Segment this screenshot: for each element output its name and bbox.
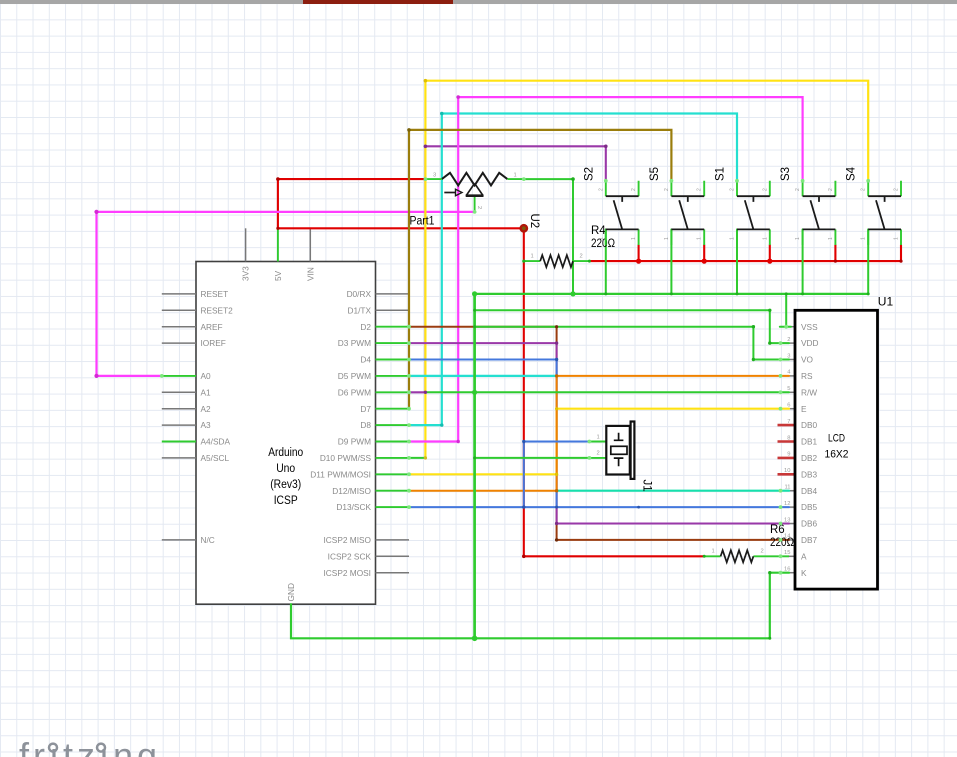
svg-text:1: 1 [795,237,801,240]
Arduino pin stub D8 [376,424,410,426]
svg-text:16: 16 [784,567,790,573]
green dot VSS vertical top [785,292,788,295]
dark-yellow corner top-left [407,128,411,132]
pushbutton S5 top pin stubs (green) [671,181,704,196]
green trunk junction R/W row [472,390,477,395]
svg-text:2: 2 [598,188,604,191]
svg-text:RESET2: RESET2 [201,305,234,315]
potentiometer Part1 zigzag body [442,173,508,186]
LCD pin stub DB5 [780,506,795,508]
wire D11 to LCD E (yellow) [409,409,789,475]
Arduino pin stub D10 PWM/SS [376,457,410,459]
yellow corner top-left [424,79,428,83]
wire piezo pin1 to D13 column (blue) [524,442,590,508]
svg-text:3: 3 [433,172,436,178]
svg-text:IOREF: IOREF [201,338,226,348]
red bus junction S3 [834,260,837,263]
yellow dot D10 row [424,456,427,459]
svg-text:DB1: DB1 [801,437,818,447]
svg-text:D0/RX: D0/RX [347,289,372,299]
pushbutton S3 top pin stubs (green) [803,181,836,196]
svg-text:2: 2 [795,188,801,191]
wire D3 to LCD DB6 (purple) [409,343,789,523]
node U2 (red junction) [519,224,528,233]
Arduino pin stub D3 PWM [376,342,410,344]
svg-text:D10 PWM/SS: D10 PWM/SS [320,453,372,463]
piezo buzzer J1 right bar [631,422,635,479]
svg-text:D3 PWM: D3 PWM [338,338,371,348]
svg-text:D9 PWM: D9 PWM [338,437,371,447]
svg-text:DB2: DB2 [801,453,818,463]
Arduino pin stub D12/MISO [376,490,410,492]
cyan corner top-left [440,112,444,116]
svg-text:DB3: DB3 [801,469,818,479]
Arduino pin stub RESET2 [162,309,196,311]
wire S1 left pin to ground bus (green) [736,229,738,294]
purple corner at S2 [604,145,608,149]
Arduino pin stub AREF [162,326,196,328]
svg-text:DB6: DB6 [801,519,818,529]
svg-text:Part1: Part1 [410,216,435,228]
wire D5 to column (cyan) [409,375,557,377]
red corner pot pin3 [276,177,280,181]
svg-text:D1/TX: D1/TX [347,305,371,315]
red corner A row [522,555,526,559]
Arduino pin stub ICSP2 MOSI [376,572,410,574]
svg-text:1: 1 [730,237,736,240]
LCD pin stub VO [780,359,795,361]
svg-text:A1: A1 [201,387,212,397]
ground bus junction pot1 [570,291,575,296]
svg-text:D8: D8 [360,420,371,430]
green corner VDD [768,309,771,312]
Arduino pin stub A2 [162,408,196,410]
yellow tee column E [555,407,558,410]
Arduino pin stub 5V [277,228,279,261]
LCD ratsnest stub DB2 [778,457,795,460]
LCD ratsnest stub DB1 [778,440,795,443]
svg-text:7: 7 [787,419,790,425]
Arduino pin stub D7 [376,408,410,410]
magenta dot D9 row [457,440,460,443]
Arduino pin stub D5 PWM [376,375,410,377]
svg-text:1: 1 [861,237,867,240]
svg-text:3: 3 [787,353,790,359]
wire D13 to LCD DB5 (blue) [409,506,789,508]
LCD pin stub VDD [780,342,795,344]
resistor R4 zigzag [540,255,573,267]
svg-text:DB0: DB0 [801,420,818,430]
svg-text:2: 2 [730,188,736,191]
svg-text:U2: U2 [528,214,540,229]
svg-text:R6: R6 [770,524,785,536]
wire GND to bottom bus to LCD K (green) [291,573,789,639]
Arduino pin stub ICSP2 SCK [376,555,410,557]
wire D2 to LCD DB7 (maroon) [409,327,789,540]
svg-text:D4: D4 [360,355,371,365]
purple corner top-left [424,145,428,149]
svg-text:15: 15 [784,550,790,556]
svg-text:1: 1 [664,237,670,240]
LCD pin stub RS [780,375,795,377]
wire bus to LCD VO (green) [475,327,789,360]
svg-text:1: 1 [597,434,600,440]
wire bus to LCD VDD (green) [475,310,789,343]
green corner K bottom [768,637,771,640]
wire S2 right pin to red bus [638,245,640,261]
svg-text:VIN: VIN [305,267,315,281]
LCD ratsnest stub DB3 [778,473,795,476]
pushbutton S5 body [671,196,704,229]
green bus dot S1 [736,292,739,295]
svg-text:1: 1 [598,237,604,240]
green corner VO [752,325,755,328]
yellow corner column D11 [555,473,558,476]
svg-text:D2: D2 [360,322,371,332]
svg-text:5V: 5V [273,270,283,281]
svg-text:10: 10 [784,468,790,474]
magenta corner top-left [456,95,460,99]
svg-text:N/C: N/C [201,535,215,545]
wire D6 to LCD R/W (green) [425,391,789,393]
svg-text:13: 13 [784,517,790,523]
svg-text:DB4: DB4 [801,486,818,496]
svg-text:1: 1 [712,549,715,555]
svg-text:2: 2 [787,337,790,343]
blue tee D13 [522,505,525,508]
pushbutton S3 body [803,196,836,229]
green dot R6 pin1 [703,555,706,558]
Arduino pin stub ICSP2 MISO [376,539,410,541]
Arduino pin stub D9 PWM [376,441,410,443]
potentiometer Part1 green leads [425,179,523,212]
wire D10 stub piece (green) [409,457,425,459]
pushbutton S4 body [868,196,901,229]
orange corner column RS [555,374,558,377]
LCD 16X2 U1 box [795,310,878,589]
svg-text:3V3: 3V3 [241,266,251,281]
svg-text:2: 2 [828,188,834,191]
svg-text:D7: D7 [360,404,371,414]
magenta corner A0 bottom [94,374,98,378]
piezo buzzer J1 body box [606,426,630,475]
green corner VDD bottom [768,341,771,344]
svg-text:DB5: DB5 [801,502,818,512]
svg-text:U1: U1 [878,295,894,309]
svg-text:2: 2 [664,188,670,191]
red bus junction S1 [767,259,772,264]
svg-text:A0: A0 [201,371,212,381]
red corner 5V row [276,227,279,230]
svg-text:D11 PWM/MOSI: D11 PWM/MOSI [310,469,371,479]
svg-text:1: 1 [762,237,768,240]
Arduino pin stub D1/TX [376,309,410,311]
wire D8 to S1 button (cyan) [409,114,737,426]
svg-text:S2: S2 [583,167,595,181]
svg-text:AREF: AREF [201,322,223,332]
Arduino pin stub 3V3 [245,228,247,261]
Arduino pin stub N/C [162,539,196,541]
Arduino pin stub RESET [162,293,196,295]
Arduino pin stub D0/RX [376,293,410,295]
pushbutton S1 top pin stubs (green) [737,181,770,196]
wire S3 right pin to red bus [834,245,836,261]
purple dot D6 row [424,391,427,394]
Arduino pin stub D6 PWM [376,391,410,393]
wire D7 to S5 button (dark yellow) [409,130,671,409]
Arduino pin stub D2 [376,326,410,328]
green bus dot S2 [604,292,607,295]
Arduino pin stub D13/SCK [376,506,410,508]
pushbutton S2 body [606,196,639,229]
wire D12 to LCD RS (orange) [409,376,789,491]
resistor R4 leads (green) [524,260,590,262]
svg-text:S4: S4 [846,166,858,181]
LCD ratsnest stub DB0 [778,424,795,427]
svg-text:220Ω: 220Ω [770,537,794,549]
svg-text:ICSP2 SCK: ICSP2 SCK [328,551,372,561]
wire ground bus to LCD VSS (green) [780,294,791,327]
Arduino pin stub A3 [162,424,196,426]
green dot R4 pin2 [588,260,591,263]
LCD pin stub E [780,408,795,410]
green corner pot pin1 [571,177,575,181]
svg-text:D12/MISO: D12/MISO [332,486,371,496]
svg-text:S5: S5 [649,167,661,181]
green trunk tee piezo row [473,456,476,459]
wire D10 to S4 button (yellow) [425,81,868,458]
pushbutton S1 bottom pin stubs (green) [737,229,770,245]
LCD pin stub DB6 [780,523,795,525]
resistor R6 zigzag [721,550,754,562]
LCD pin stub A [780,555,795,557]
green bus dot S3 [801,292,804,295]
green corner VO bottom [752,358,755,361]
blue dot column DB5 [555,506,558,509]
svg-text:RESET: RESET [201,289,229,299]
red bus junction S5 [702,259,707,264]
red bus corner S4 [899,260,902,263]
svg-text:VDD: VDD [801,338,819,348]
svg-text:A2: A2 [201,404,212,414]
wire S5 right pin to red bus [703,245,705,261]
wire A0 to potentiometer wiper (magenta) [97,212,475,376]
blue tee column D4 [555,358,558,361]
svg-text:frıtzıng: frıtzıng [19,735,161,757]
Arduino pin stub D11 PWM/MOSI [376,473,410,475]
magenta corner A0 top [94,210,98,214]
svg-text:ICSP2 MISO: ICSP2 MISO [324,535,372,545]
green bus dot S5 [670,292,673,295]
svg-text:2: 2 [761,549,764,555]
pushbutton S2 bottom pin stubs (green) [606,229,639,245]
LCD pin stub VSS [780,326,795,328]
svg-text:VSS: VSS [801,322,818,332]
green trunk tee VSS row [473,325,476,328]
wire S4 left pin to ground bus (green) [867,229,869,294]
svg-text:A5/SCL: A5/SCL [201,453,230,463]
wire 5V to potentiometer pin3 / U2 node / R6 to LCD A (red) [278,179,704,556]
svg-text:ICSP2 MOSI: ICSP2 MOSI [324,568,372,578]
wire ground trunk vertical (green) [473,294,476,638]
purple tee column D3 [555,341,558,344]
svg-text:K: K [801,568,807,578]
piezo buzzer J1 pin stubs (green) [589,442,606,458]
svg-text:D6 PWM: D6 PWM [338,387,371,397]
pushbutton S5 bottom pin stubs (green) [671,229,704,245]
wire R4 to buttons bottom bus (red) [589,245,901,261]
wire D9 to S3 button (magenta) [409,97,803,441]
svg-text:2: 2 [476,206,482,209]
svg-text:S3: S3 [780,167,792,181]
svg-text:1: 1 [697,237,703,240]
LCD pin stub DB7 [780,539,795,541]
svg-text:5: 5 [787,386,790,392]
svg-text:1: 1 [828,237,834,240]
pushbutton S2 top pin stubs (green) [606,181,639,196]
potentiometer adjustment arrow [444,192,455,194]
cyan dot D8 row [440,423,443,426]
svg-text:8: 8 [787,435,790,441]
Arduino pin stub A0 [162,375,196,377]
wire LCD DB4 branch (aqua) [557,490,789,492]
wire S3 left pin to ground bus (green) [802,229,804,294]
ground trunk bottom junction [472,636,478,642]
ground bus junction at trunk [472,291,477,296]
Arduino pin stub A5/SCL [162,457,196,459]
LCD pin stub DB4 [780,490,795,492]
svg-text:9: 9 [787,452,790,458]
potentiometer wiper triangle [466,183,483,195]
wire D6 to S2 button (purple) [409,146,606,392]
svg-text:2: 2 [631,188,637,191]
svg-text:D13/SCK: D13/SCK [336,502,371,512]
LCD pin stub K [780,572,795,574]
green corner K [768,571,771,574]
pushbutton S3 bottom pin stubs (green) [803,229,836,245]
green bus end dot S4 [867,292,870,295]
wire endpoint markers (light green) [160,177,870,574]
wire potentiometer pin1 to ground bus (green) [524,179,573,294]
svg-text:D5 PWM: D5 PWM [338,371,371,381]
maroon corner column top [555,325,558,328]
top toolbar gray bar [0,0,957,4]
svg-text:A: A [801,551,807,561]
svg-text:A3: A3 [201,420,212,430]
Arduino pin stub IOREF [162,342,196,344]
LCD pin stub R/W [780,391,795,393]
orange corner column D12 [555,489,558,492]
svg-text:R4: R4 [591,225,606,237]
resistor R6 leads (green) [704,555,789,557]
svg-text:A4/SDA: A4/SDA [201,437,231,447]
Arduino pin stub A1 [162,391,196,393]
wire piezo pin2 to ground column (green) [475,457,590,459]
svg-text:2: 2 [894,188,900,191]
wire S1 right pin to red bus [769,245,771,261]
svg-text:DB7: DB7 [801,535,818,545]
wire D4 down column (blue) [409,360,557,508]
red bus junction S2 [636,259,641,264]
pushbutton S4 top pin stubs (green) [868,181,901,196]
Arduino pin stub VIN [309,228,311,261]
blue joint DB5 [637,506,640,509]
svg-text:2: 2 [580,254,583,260]
blue corner piezo1 [522,440,525,443]
Arduino Uno (Rev3) ICSP main box [196,262,376,605]
svg-text:GND: GND [286,583,296,601]
purple corner column DB6 [555,522,558,525]
svg-text:1: 1 [894,237,900,240]
Arduino pin stub D4 [376,359,410,361]
pushbutton S1 body [737,196,770,229]
svg-text:2: 2 [762,188,768,191]
pushbutton S4 bottom pin stubs (green) [868,229,901,245]
svg-text:1: 1 [531,254,534,260]
svg-text:2: 2 [597,451,600,457]
wire ground bus row (green) [475,293,869,295]
svg-text:J1: J1 [641,480,653,492]
svg-text:VO: VO [801,355,814,365]
svg-text:E: E [801,404,807,414]
green tee R4 pin1 [522,260,525,263]
green trunk tee D1 row [473,309,476,312]
piezo buzzer J1 crystal symbol [614,433,624,467]
svg-text:RS: RS [801,371,813,381]
top toolbar dark red segment [303,0,453,4]
svg-text:2: 2 [861,188,867,191]
svg-text:S1: S1 [715,167,727,181]
svg-text:R/W: R/W [801,387,817,397]
svg-text:1: 1 [631,237,637,240]
svg-text:2: 2 [697,188,703,191]
Arduino pin stub A4/SDA [162,441,196,443]
maroon corner column DB7 [555,538,558,541]
svg-text:1: 1 [514,172,517,178]
wire S2 left pin to ground bus (green) [605,229,607,294]
svg-text:12: 12 [784,501,790,507]
wire S5 left pin to ground bus (green) [670,229,672,294]
